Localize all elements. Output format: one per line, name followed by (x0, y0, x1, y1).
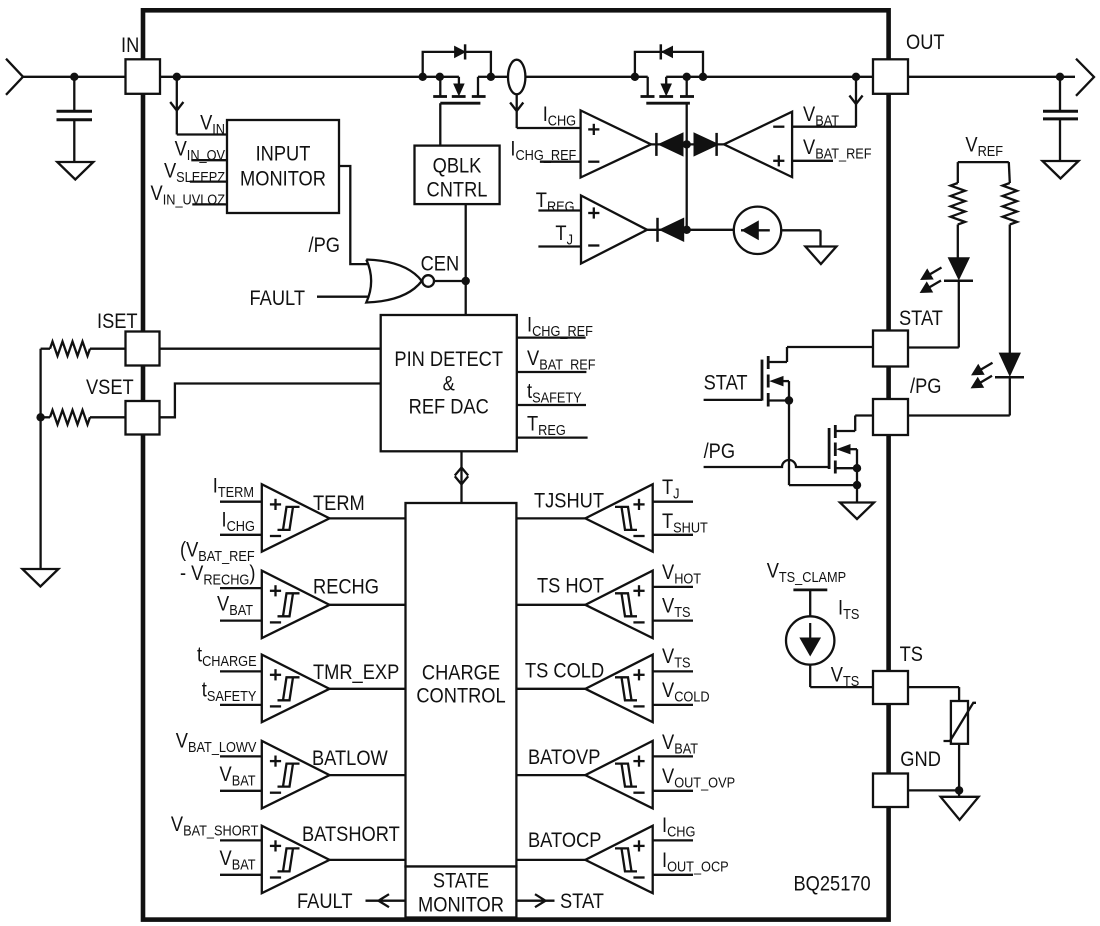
transistor Q2 body diode bridge (635, 52, 703, 77)
wire STAT gate lead (704, 399, 762, 401)
wire BATSHORT plus stub (220, 839, 262, 841)
svg-text:GND: GND (900, 748, 941, 772)
diode D4 (694, 133, 718, 156)
wire BATLOW output (330, 774, 406, 776)
wire tSAFETY stub (220, 704, 262, 706)
ground ISET VSET (22, 569, 58, 587)
block QBLK CNTRL (415, 146, 500, 205)
op-amp VBAT comparator (724, 112, 792, 177)
wire Q2 to OUT pin (687, 76, 873, 78)
wire VCOLD stub (653, 704, 693, 706)
svg-text:/PG: /PG (309, 234, 340, 258)
svg-text:MONITOR: MONITOR (240, 167, 326, 191)
svg-text:&: & (443, 372, 455, 396)
svg-text:REF DAC: REF DAC (409, 395, 489, 419)
node resistor common (36, 413, 44, 421)
wire Q3 source down (788, 401, 790, 486)
current source I1 (734, 207, 781, 254)
node gate drive (683, 140, 691, 148)
svg-text:TS: TS (900, 643, 923, 667)
wire ICHG_REF stub (540, 161, 581, 163)
svg-text:STAT: STAT (704, 371, 748, 395)
wire TS COLD output (516, 688, 585, 690)
wire VBAT_REF stub (792, 160, 833, 162)
wire ITERM stub (220, 501, 262, 503)
input source arrow (6, 59, 23, 95)
node Q2 source rail (683, 73, 691, 81)
svg-text:IN: IN (121, 34, 139, 58)
wire TJSHUT output (516, 517, 585, 519)
wire sense to Q2 (525, 76, 647, 78)
NOR gate U2 (366, 260, 422, 303)
op-amp TJSHUT comparator (585, 484, 652, 552)
ground GND pin (941, 797, 979, 820)
wire VIN_OV stub (191, 159, 227, 161)
wire TMR_EXP output (330, 688, 406, 690)
node Q1 source (436, 73, 444, 81)
output arrow (1076, 59, 1094, 96)
node thermistor ground (955, 786, 963, 794)
svg-text:FAULT: FAULT (297, 890, 352, 914)
svg-text:OUT: OUT (906, 31, 945, 55)
svg-text:CONTROL: CONTROL (416, 684, 505, 708)
svg-text:MONITOR: MONITOR (418, 893, 504, 917)
wire VIN sense with arrow (176, 77, 178, 135)
svg-text:/PG: /PG (704, 440, 735, 464)
wire IOUT_OCP stub (653, 874, 693, 876)
pin GND (873, 774, 908, 808)
wire RECHG plus stub (220, 587, 262, 589)
wire TS HOT output (516, 604, 585, 606)
wire LED D6 to STAT pin (958, 281, 960, 348)
wire drive node row (651, 143, 724, 145)
node VIN sense tap (173, 73, 181, 81)
LED D7 emission arrows (976, 363, 992, 373)
wire VSLEEPZ stub (190, 180, 227, 182)
capacitor COUT (1059, 77, 1061, 111)
svg-text:TS HOT: TS HOT (537, 574, 604, 598)
svg-text:CNTRL: CNTRL (427, 178, 488, 202)
svg-text:STAT: STAT (560, 890, 604, 914)
block INPUT MONITOR (227, 120, 339, 213)
node Q4 source (853, 464, 861, 472)
wire TSHUT stub (653, 534, 693, 536)
node Q3 source (785, 396, 793, 404)
current source ITS (786, 616, 834, 664)
current sense element (508, 60, 525, 95)
wire ISET to PIN DETECT (160, 348, 381, 350)
IC boundary BQ25170 outline (143, 10, 889, 919)
wire Q1 gate to QBLK CNTRL (439, 103, 441, 145)
wire VREF bar (958, 161, 1009, 163)
svg-text:BATLOW: BATLOW (312, 747, 388, 771)
svg-text:TJSHUT: TJSHUT (534, 489, 604, 513)
svg-text:/PG: /PG (910, 375, 941, 399)
diode D5 (660, 218, 684, 241)
wire VIN_UVLOZ stub (192, 203, 227, 205)
svg-text:STAT: STAT (899, 307, 943, 331)
op-amp TS COLD comparator (585, 655, 652, 723)
pin STAT (873, 331, 908, 367)
wire GND pin to node (908, 789, 959, 791)
wire VSET to PIN DETECT (160, 384, 381, 418)
op-amp ICHG comparator (581, 110, 651, 177)
wire VBAT input from OUT rail (792, 126, 856, 128)
wire STAT output arrow (516, 900, 554, 902)
wire TREG comp to node (647, 229, 734, 231)
wire VBAT stub BATOVP (653, 755, 693, 757)
svg-text:TMR_EXP: TMR_EXP (313, 661, 399, 685)
svg-text:BATOVP: BATOVP (528, 746, 600, 770)
svg-text:TS COLD: TS COLD (525, 659, 604, 683)
wire VTS stub TS COLD (653, 670, 693, 672)
svg-text:TERM: TERM (313, 492, 365, 516)
ground output cap (1043, 161, 1079, 179)
wire Q2 gate to drive node (686, 103, 688, 144)
resistor R2 (1009, 162, 1010, 183)
pin OUT (873, 59, 908, 94)
pin ISET (126, 332, 160, 366)
svg-text:CHARGE: CHARGE (422, 661, 500, 685)
svg-text:BQ25170: BQ25170 (794, 872, 871, 896)
wire Q4 source to ground (856, 468, 858, 502)
wire NOR output to CEN node (434, 280, 466, 282)
node input cap junction (70, 73, 78, 81)
transistor Q3 STAT (761, 360, 764, 401)
VTS_CLAMP supply bar (793, 589, 827, 592)
svg-text:RECHG: RECHG (313, 575, 379, 599)
diode D2 Q2 body (662, 46, 673, 57)
svg-text:CEN: CEN (421, 252, 460, 276)
diode D1 Q1 body (455, 46, 466, 57)
wire RECHG minus stub (220, 619, 262, 621)
svg-text:BATSHORT: BATSHORT (302, 823, 400, 847)
node CEN (462, 277, 470, 285)
op-amp TREG comparator (581, 196, 647, 264)
wire tSAFETY output (517, 404, 586, 406)
wire BATSHORT minus stub (220, 874, 262, 876)
wire TREG output (517, 436, 588, 438)
wire tCHARGE stub (220, 670, 262, 672)
wire ICHG stub TERM (220, 534, 262, 536)
op-amp TMR_EXP comparator (262, 655, 330, 723)
wire /PG gate lead with hop (704, 460, 830, 467)
op-amp BATOVP comparator (585, 741, 652, 809)
node Q1 drain (487, 73, 495, 81)
wire CEN vertical (465, 204, 467, 315)
LED D6 emission arrows (925, 268, 941, 278)
wire TS pin to thermistor (908, 686, 959, 688)
wire I1 to ground (781, 229, 820, 231)
op-amp BATSHORT comparator (262, 826, 330, 894)
wire TERM output (330, 517, 406, 519)
capacitor CIN (73, 77, 75, 111)
ground I1 (805, 247, 836, 265)
wire IN pin to Q1 rail (160, 76, 459, 78)
transistor Q1 body diode bridge (423, 52, 491, 77)
svg-text:STATE: STATE (433, 869, 489, 893)
op-amp BATOCP comparator (585, 826, 652, 894)
wire /PG from INPUT MONITOR to gate (339, 166, 369, 264)
wire clamp to current source (809, 590, 811, 617)
svg-text:INPUT: INPUT (256, 142, 311, 166)
block STATE MONITOR (406, 867, 517, 918)
wire BATOVP output (516, 774, 585, 776)
wire FAULT output arrow (366, 900, 406, 902)
svg-text:VSET: VSET (86, 376, 134, 400)
node output cap junction (1056, 73, 1064, 81)
node Q2 bridge right (699, 73, 707, 81)
svg-text:BATOCP: BATOCP (528, 829, 601, 853)
svg-text:ISET: ISET (97, 310, 138, 334)
wire drive node vertical (686, 144, 688, 229)
wire BATLOW plus stub (220, 755, 262, 757)
resistor R ISET (41, 348, 50, 350)
transistor Q2 (647, 77, 649, 97)
wire BATLOW minus stub (220, 790, 262, 792)
LED D6 STAT (948, 258, 969, 280)
svg-text:FAULT: FAULT (250, 287, 305, 311)
op-amp BATLOW comparator (262, 741, 330, 809)
wire TJ stub (538, 245, 581, 247)
block PIN DETECT and REF DAC (381, 315, 517, 451)
wire resistor common (39, 349, 41, 569)
wire TJ stub TJSHUT (653, 501, 693, 503)
wire ICHG_REF output (517, 336, 586, 338)
wire VBAT_REF output (517, 371, 587, 373)
pin VSET (126, 401, 160, 435)
node Q3 Q4 source junction (853, 481, 861, 489)
wire current source to TS pin (809, 665, 811, 687)
node Q2 bridge left (631, 73, 639, 81)
op-amp TS HOT comparator (585, 571, 652, 639)
wire OUT pin to output (908, 76, 1075, 78)
wire input to IN pin (23, 76, 126, 78)
resistor R1 (957, 162, 959, 183)
block CHARGE CONTROL (406, 503, 517, 867)
wire VHOT stub (653, 586, 693, 588)
wire RECHG output (330, 604, 406, 606)
node TREG drive (683, 226, 691, 234)
transistor Q4 PG (828, 428, 831, 469)
svg-text:PIN DETECT: PIN DETECT (394, 348, 503, 372)
resistor R VSET (41, 416, 50, 418)
wire ICHG stub BATOCP (653, 839, 693, 841)
pin TS (873, 671, 908, 704)
wire VTS stub TS HOT (653, 619, 693, 621)
wire ICHG sense to comparator (516, 94, 518, 128)
diode D3 (659, 133, 683, 156)
wire TREG stub (538, 209, 581, 211)
LED D7 PG (999, 353, 1020, 376)
wire BATOCP output (516, 859, 585, 861)
wire BATSHORT output (330, 859, 406, 861)
transistor Q1 (439, 77, 441, 97)
pin /PG (873, 399, 908, 435)
node VBAT sense tap (852, 73, 860, 81)
node Q1 bridge left (419, 73, 427, 81)
wire VOUT_OVP stub (653, 790, 693, 792)
wire FAULT to gate (317, 296, 373, 298)
op-amp TERM comparator (262, 484, 330, 552)
wire LED D7 to PG pin (1009, 377, 1011, 415)
ground Q3 Q4 (840, 503, 874, 520)
wire PIN DETECT to CHARGE CONTROL bidirectional (460, 451, 462, 503)
ground input cap (57, 162, 93, 180)
thermistor RT (951, 701, 968, 744)
svg-text:QBLK: QBLK (433, 154, 482, 178)
pin IN (126, 59, 161, 94)
op-amp RECHG comparator (262, 571, 330, 639)
wire thermistor to ground node (958, 744, 960, 797)
wire Q1 to sense element (491, 76, 508, 78)
